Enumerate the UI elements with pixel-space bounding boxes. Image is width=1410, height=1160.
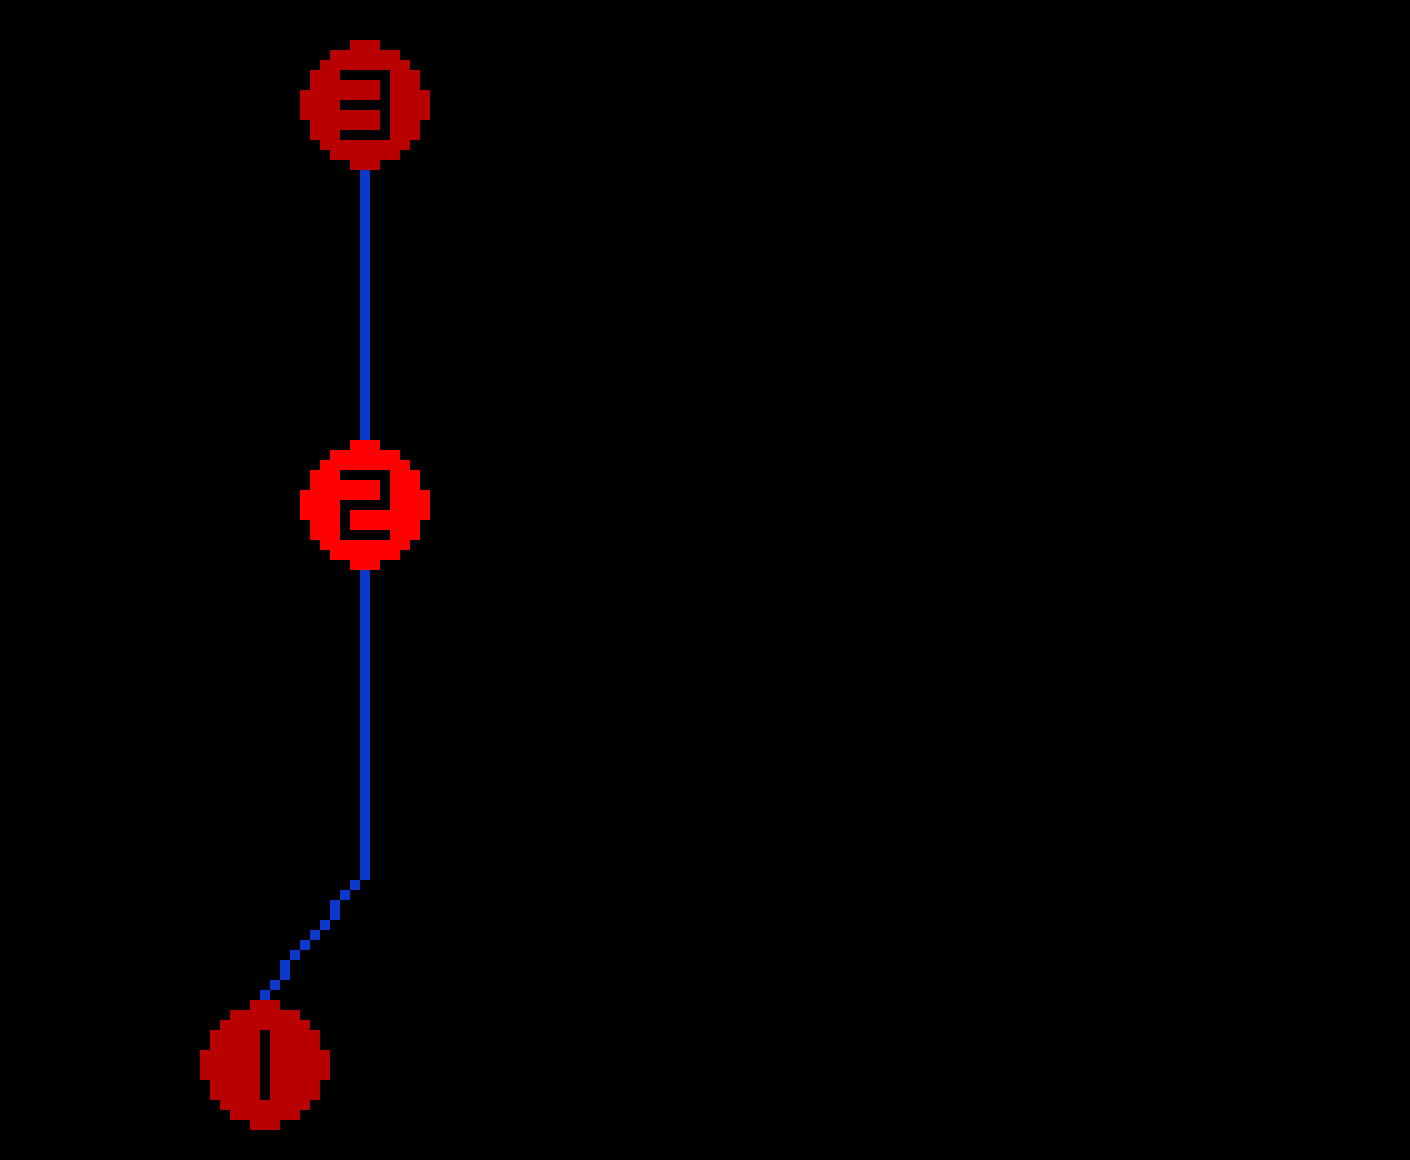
wire edge 2-1 diagonal staircase: [260, 880, 360, 1000]
wire edge 2-1 vertical segment: [360, 570, 370, 880]
node 2 (bright red circle): [300, 440, 430, 570]
digit 2 label: [340, 470, 390, 540]
digit 3 label: [340, 70, 390, 140]
node 1 (dark red circle): [200, 1000, 330, 1130]
node 3 (dark red circle): [300, 40, 430, 170]
digit 1 label: [260, 1030, 270, 1100]
wire edge 3-2 (vertical): [360, 170, 370, 440]
